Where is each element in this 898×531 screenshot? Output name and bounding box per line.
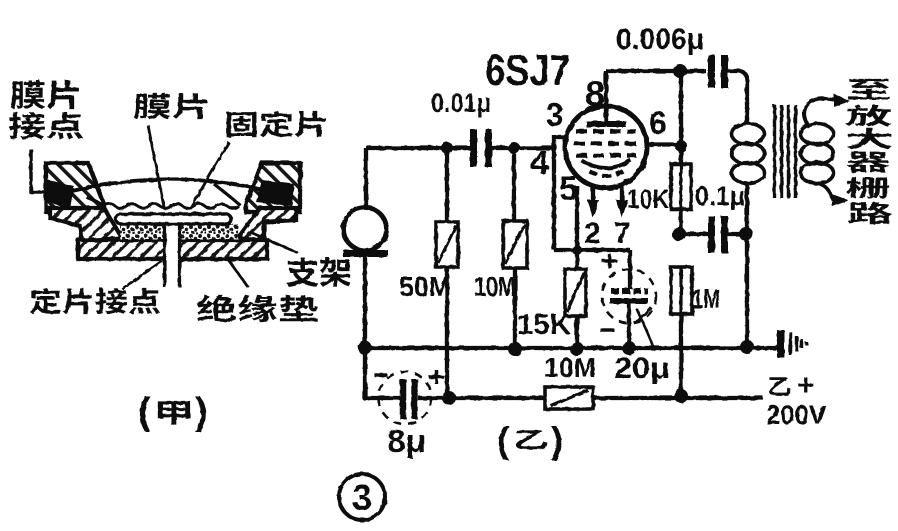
resistor 1M bottom lead xyxy=(679,314,683,396)
leader line from 定片接点 label xyxy=(122,261,162,289)
svg-text:4: 4 xyxy=(530,144,549,182)
label 支架 (bracket) xyxy=(287,257,351,287)
mic housing left clamp block (hatched) xyxy=(46,163,104,212)
wire: plate top rail xyxy=(606,69,706,73)
wire: secondary bottom lead with arrow xyxy=(818,183,833,200)
capacitor C 0.01u plates xyxy=(474,129,489,167)
fixed plate slab xyxy=(116,214,231,224)
svg-text:): ) xyxy=(195,391,208,433)
transformer primary loop 3 xyxy=(732,163,765,184)
node: pin6 junction xyxy=(675,140,687,152)
capacitor 20u bottom lead xyxy=(627,304,631,348)
wire: to 0.1u xyxy=(681,232,746,236)
node: junction at 50M top xyxy=(441,142,453,154)
capacitor 0.006u plates xyxy=(712,55,725,88)
resistor 10K body xyxy=(671,164,691,209)
label 固定片 (fixed plate) xyxy=(227,111,326,138)
resistor 15K slash xyxy=(567,273,584,312)
resistor 10M body xyxy=(503,221,527,268)
insulating pad (stippled) xyxy=(120,224,238,239)
capacitor 20u: lead from cathode node xyxy=(628,250,632,289)
20u polarity + xyxy=(602,254,617,268)
diaphragm left clamp curve xyxy=(86,197,106,206)
svg-text:3: 3 xyxy=(352,477,372,518)
svg-text:3: 3 xyxy=(546,97,564,133)
wire: primary bottom lead xyxy=(745,183,749,347)
svg-text:(: ( xyxy=(138,391,151,433)
fixed plate stem xyxy=(163,224,181,287)
svg-text:10K: 10K xyxy=(627,184,669,214)
label 膜片 (diaphragm) xyxy=(134,93,207,119)
wire: grid bracket vertical xyxy=(552,135,556,250)
node: 8u/50M at B+ rail xyxy=(442,391,456,405)
node: screen/0.1u junction xyxy=(672,227,686,241)
svg-text:): ) xyxy=(551,420,563,461)
resistor 10M slash xyxy=(505,224,525,264)
svg-text:0.006μ: 0.006μ xyxy=(616,23,704,56)
svg-text:(: ( xyxy=(497,420,510,461)
wire: diaphragm contact lead xyxy=(31,149,56,192)
diaphragm contact blob (solid) xyxy=(48,180,74,209)
label 至放大器栅路 (to amplifier grid circuit), vertical xyxy=(846,79,893,224)
leader line from 固定片 label xyxy=(190,142,229,209)
node: pin5/cathode junction xyxy=(572,245,582,255)
tube 6SJ7 envelope xyxy=(565,106,647,188)
diaphragm wavy surface xyxy=(104,204,238,209)
wire: B+ bottom rail left segment xyxy=(365,348,545,398)
8u polarity + xyxy=(429,370,444,384)
tube grid dashes row 2 xyxy=(574,141,638,146)
leader line to 支架 label xyxy=(250,232,298,253)
resistor 50M body xyxy=(436,222,458,267)
mic housing left lower wall (hatched) xyxy=(50,208,122,241)
resistor 1M inner lead xyxy=(679,267,682,314)
leader line from 膜片 label xyxy=(148,125,164,207)
pin 2 lead with arrow xyxy=(591,186,595,202)
wire: pin 5 lead down to 15K xyxy=(575,186,579,269)
capacitor 20u bottom plate xyxy=(610,298,648,304)
microphone element: bottom lead xyxy=(363,257,367,348)
tube plate bar xyxy=(586,121,626,127)
resistor 50M slash xyxy=(438,226,456,263)
diaphragm right clamp curve xyxy=(214,184,240,205)
svg-text:8μ: 8μ xyxy=(387,423,426,459)
svg-text:6SJ7: 6SJ7 xyxy=(485,46,570,95)
capacitor 20u top plate (segmented) xyxy=(611,288,648,294)
node: 20u at ground rail xyxy=(622,341,636,355)
8u polarity - xyxy=(374,373,387,376)
svg-text:15K: 15K xyxy=(517,309,571,341)
resistor 50M leads xyxy=(445,148,449,398)
node: junction at 10M top xyxy=(508,142,520,154)
svg-text:7: 7 xyxy=(614,217,631,250)
capacitor 0.1u plates xyxy=(712,216,725,253)
node: screen cap to transformer line xyxy=(739,227,753,241)
20u leader lines xyxy=(637,307,655,350)
wire: pin 3 stub xyxy=(554,135,567,139)
label (乙) figure b xyxy=(497,420,563,461)
20u polarity - xyxy=(600,328,614,331)
fixed side dark corner (solid) xyxy=(256,180,294,206)
node: top rail junction xyxy=(673,64,687,78)
label 乙+ xyxy=(769,369,814,402)
tube cathode arc xyxy=(581,160,631,168)
svg-text:1M: 1M xyxy=(692,283,720,314)
svg-text:6: 6 xyxy=(649,105,667,141)
wire: grid input rail xyxy=(366,146,554,150)
svg-text:10M: 10M xyxy=(544,352,596,383)
resistor 10M (grid) leads xyxy=(514,148,515,349)
tube grid dashes row 1 xyxy=(576,129,636,134)
microphone element: circle xyxy=(344,208,387,251)
svg-text:10M: 10M xyxy=(474,271,516,302)
capacitor 8u dashed circle xyxy=(379,372,432,425)
capacitor 8u plates xyxy=(403,379,415,419)
microphone element: top wire xyxy=(364,148,368,209)
svg-text:8: 8 xyxy=(585,73,605,114)
resistor 15K body xyxy=(565,269,586,316)
resistor 15K bottom lead xyxy=(575,316,579,349)
pin 7 lead with arrow xyxy=(620,186,624,202)
wire: vertical from top rail through pin6 node xyxy=(679,71,683,234)
svg-text:0.01μ: 0.01μ xyxy=(431,88,491,118)
capacitor 20u dashed circle xyxy=(602,269,656,323)
node: 15K at ground rail xyxy=(570,342,584,356)
svg-text:200V: 200V xyxy=(766,400,826,430)
node: mic at ground rail xyxy=(358,341,372,355)
wire: pin 6 to screen node xyxy=(647,142,681,146)
diaphragm dome arc xyxy=(72,179,264,191)
resistor 10M (decoupling) body xyxy=(545,387,593,409)
svg-text:2: 2 xyxy=(584,217,601,250)
label 膜片接点 (diaphragm contact), two lines xyxy=(9,80,83,139)
transformer secondary loop 3 xyxy=(801,163,834,184)
wire: secondary top lead with arrow xyxy=(804,99,836,127)
mic housing bottom band (hatched) xyxy=(78,240,267,259)
microphone element: back plate bar xyxy=(343,250,388,257)
leader line from 绝缘垫 label xyxy=(227,258,248,287)
resistor 10K inner lead xyxy=(679,164,682,209)
wire: ground rail xyxy=(365,346,779,350)
wire: 0.006u to transformer xyxy=(728,71,747,124)
transformer primary loop 2 xyxy=(732,143,765,164)
wire: bracket bottom to cathode node xyxy=(554,248,630,252)
svg-text:20μ: 20μ xyxy=(614,352,670,385)
tube grid dashes row 3 xyxy=(576,153,636,158)
transformer primary loop 1 xyxy=(732,124,765,145)
node: 10M at ground rail xyxy=(508,342,522,356)
transformer secondary loop 2 xyxy=(801,143,834,164)
tube pin 8 lead xyxy=(604,71,608,121)
mic housing right lower wall (hatched) xyxy=(238,208,296,241)
tube lower arc xyxy=(589,171,623,176)
ground symbol xyxy=(777,330,785,358)
node: transformer at ground rail xyxy=(740,340,754,354)
resistor 1M body xyxy=(671,267,692,314)
node: 1M at B+ rail xyxy=(674,389,688,403)
svg-text:50M: 50M xyxy=(399,271,451,302)
label 定片接点 (fixed-plate contact) xyxy=(30,288,160,315)
label 绝缘垫 (insulating pad) xyxy=(197,295,318,322)
svg-text:+: + xyxy=(797,369,815,402)
figure number 3 circled xyxy=(339,474,385,520)
wire: B+ rail right segment xyxy=(593,396,763,400)
transformer secondary loop 1 xyxy=(801,124,834,145)
svg-text:0.1μ: 0.1μ xyxy=(695,181,745,211)
label (甲) figure a xyxy=(138,391,208,433)
pin labels 8 3 4 5 6 2 7 xyxy=(530,73,667,250)
transformer core laminations xyxy=(775,105,796,198)
resistor 10M (decoupling) slash xyxy=(551,390,588,406)
mic housing right clamp block (hatched) xyxy=(246,163,300,212)
